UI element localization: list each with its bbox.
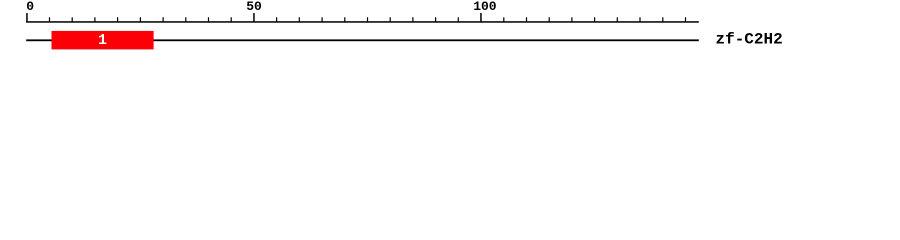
svg-text:50: 50 xyxy=(246,0,262,14)
svg-text:0: 0 xyxy=(26,0,34,14)
sequence line xyxy=(26,39,699,41)
svg-text:100: 100 xyxy=(473,0,497,14)
ruler minor ticks xyxy=(49,17,686,22)
svg-text:1: 1 xyxy=(98,32,107,49)
ruler major tick 0 xyxy=(26,13,28,23)
ruler major tick 50 xyxy=(253,13,255,23)
ruler axis line xyxy=(26,21,699,23)
svg-text:zf-C2H2: zf-C2H2 xyxy=(716,31,783,49)
domain box 1 (zf-C2H2) xyxy=(52,31,154,50)
ruler major tick 100 xyxy=(480,13,482,23)
